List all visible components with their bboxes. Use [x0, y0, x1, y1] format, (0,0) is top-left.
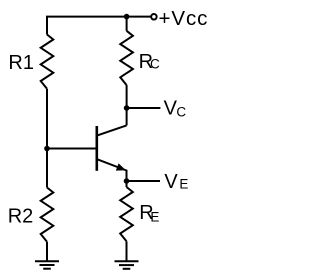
svg-text:C: C: [150, 57, 160, 72]
svg-text:V: V: [164, 171, 178, 193]
svg-text:R1: R1: [8, 52, 34, 74]
svg-text:C: C: [176, 105, 186, 120]
svg-text:+Vcc: +Vcc: [159, 7, 209, 30]
svg-text:R2: R2: [8, 206, 34, 228]
svg-text:E: E: [179, 177, 188, 192]
svg-text:E: E: [150, 210, 159, 225]
